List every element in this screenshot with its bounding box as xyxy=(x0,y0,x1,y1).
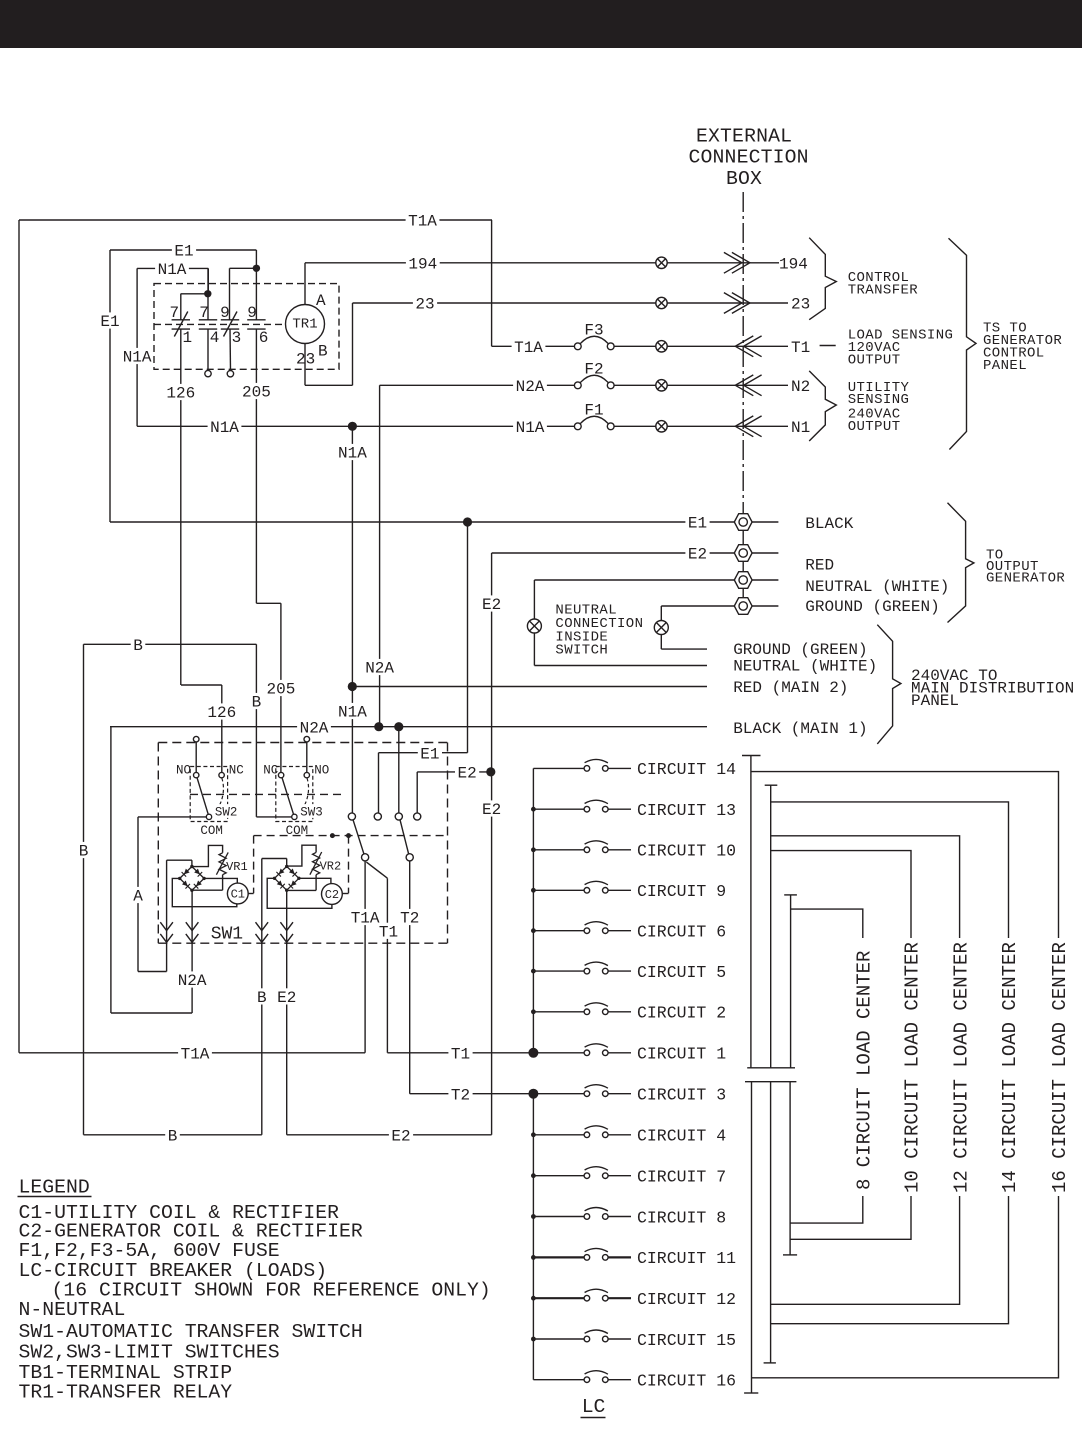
wire B left vertical xyxy=(83,644,85,1135)
wire C1 left leg top xyxy=(167,859,192,861)
contact TR1 pins 7-4 (NO) xyxy=(199,319,217,321)
breaker circuit 3 xyxy=(533,1093,584,1095)
breaker circuit 8 xyxy=(533,1216,584,1218)
wire C2 left leg top xyxy=(262,858,287,860)
coil assembly C2 dashed right edge xyxy=(348,836,350,894)
svg-text:B: B xyxy=(257,989,267,1007)
terminal SW3 upper xyxy=(304,736,310,742)
plug arrows leg B xyxy=(256,922,269,930)
fuse F1 xyxy=(574,423,581,430)
contact TR1 pins 7-1 (NC) xyxy=(172,319,190,321)
svg-text:126: 126 xyxy=(166,385,195,403)
wire to 12 circuit label xyxy=(771,836,960,938)
svg-text:CIRCUIT 5: CIRCUIT 5 xyxy=(637,963,726,982)
wire C1 left vertex to coil bottom xyxy=(172,878,237,906)
wire E2 main vertical xyxy=(491,553,493,1135)
wire A from SW2 COM xyxy=(138,816,206,818)
wire leg E2 (C2 right) xyxy=(286,891,288,1135)
wire leg A (C1 left) xyxy=(166,860,168,971)
svg-text:F1: F1 xyxy=(584,401,603,419)
svg-text:3: 3 xyxy=(232,329,242,347)
svg-text:N1A: N1A xyxy=(158,261,187,279)
wire C2 right vertex to coil top xyxy=(299,878,331,883)
load bus upper segment xyxy=(532,768,534,1052)
linkage dashed line lower / coil assembly top xyxy=(254,835,448,837)
wire N2A vertical xyxy=(379,385,381,726)
wire E1 stub row to contact xyxy=(379,752,468,754)
wire T1 bottom row xyxy=(387,1052,533,1054)
svg-text:CONNECTION: CONNECTION xyxy=(689,146,809,168)
svg-text:CIRCUIT 4: CIRCUIT 4 xyxy=(637,1127,726,1146)
resistor VR1 xyxy=(219,853,226,875)
coil C1 xyxy=(227,883,248,904)
svg-text:NEUTRAL (WHITE): NEUTRAL (WHITE) xyxy=(733,658,877,676)
svg-text:B: B xyxy=(318,343,328,361)
svg-text:CIRCUIT 13: CIRCUIT 13 xyxy=(637,801,736,820)
svg-text:PANEL: PANEL xyxy=(911,692,959,710)
svg-text:T1A: T1A xyxy=(181,1045,210,1063)
svg-text:126: 126 xyxy=(207,704,236,722)
svg-text:N1A: N1A xyxy=(338,445,367,463)
load center bar A xyxy=(750,756,752,1068)
lever pole 2 xyxy=(400,820,409,855)
node N1A to red main 2 xyxy=(348,682,357,691)
plug arrows leg A xyxy=(160,922,173,930)
wire N1A drop to relay pins xyxy=(207,268,209,293)
wire neutral drop xyxy=(533,580,535,666)
node circuit 7 bus tap xyxy=(531,1173,536,1178)
svg-text:10 CIRCUIT LOAD CENTER: 10 CIRCUIT LOAD CENTER xyxy=(902,942,924,1193)
breaker circuit 15 xyxy=(533,1338,584,1340)
svg-text:EXTERNAL: EXTERNAL xyxy=(696,125,792,147)
svg-text:E1: E1 xyxy=(688,515,707,533)
wire B bottom row xyxy=(84,1134,262,1136)
plug arrows leg E2 xyxy=(280,922,293,930)
svg-text:T1A: T1A xyxy=(351,910,380,928)
svg-text:E2: E2 xyxy=(482,801,501,819)
wire E1 tap vertical xyxy=(467,522,469,753)
breaker circuit 14 xyxy=(533,767,584,769)
contact N2A pole upper xyxy=(395,813,402,820)
terminal lamp N2 xyxy=(656,380,667,391)
svg-text:LEGEND: LEGEND xyxy=(19,1176,90,1198)
linkage dashed line upper xyxy=(190,793,344,795)
label 205 on pin 6 wire xyxy=(240,383,274,399)
pin 4 open terminal xyxy=(205,370,211,376)
svg-text:SW2,SW3-LIMIT SWITCHES: SW2,SW3-LIMIT SWITCHES xyxy=(19,1341,280,1363)
wire ground drop xyxy=(660,606,662,649)
coil C2 xyxy=(322,884,343,905)
svg-text:N1A: N1A xyxy=(123,349,152,367)
wire N2A return loop xyxy=(111,1012,192,1014)
load center bar E cap xyxy=(764,1362,776,1364)
contact N1A pole upper xyxy=(348,813,355,820)
plug arrows leg N2A xyxy=(186,922,199,930)
brace utility sensing xyxy=(809,371,836,441)
wire T1 branch xyxy=(366,862,387,878)
node circuit 9 bus tap xyxy=(531,888,536,893)
terminal stud neutral (hex) xyxy=(734,572,752,589)
wire to 10 circuit label xyxy=(771,851,911,938)
node circuit 6 bus tap xyxy=(531,928,536,933)
svg-text:C1: C1 xyxy=(231,888,245,902)
wire 12 circuit label return xyxy=(771,1196,960,1304)
svg-text:T1: T1 xyxy=(791,339,810,357)
node N1A junction at RED drop xyxy=(348,422,357,431)
wire pin9 branch xyxy=(230,267,257,269)
svg-text:194: 194 xyxy=(408,255,437,273)
wire pin7 branch xyxy=(181,293,208,295)
contact TR1 pins 9-3 (NC) xyxy=(221,319,239,321)
wire 16 circuit label return xyxy=(752,1196,1059,1378)
limit switch SW3 box (dashed) xyxy=(276,767,313,822)
wire T1A bottom row xyxy=(19,1052,365,1054)
terminal stud ground (hex) xyxy=(734,598,752,615)
wire neutral generator row xyxy=(534,579,734,581)
svg-text:C2: C2 xyxy=(325,888,339,902)
svg-text:B: B xyxy=(168,1127,178,1145)
wire to 8 circuit label xyxy=(791,909,863,938)
wire E2 stub row to contact xyxy=(417,771,491,773)
svg-text:NEUTRAL (WHITE): NEUTRAL (WHITE) xyxy=(805,578,949,596)
lamp ground connection xyxy=(654,621,668,635)
breaker circuit 4 xyxy=(533,1134,584,1136)
svg-text:T1A: T1A xyxy=(408,213,437,231)
wire VR1 bottom to bridge xyxy=(222,875,224,891)
wire 194 row xyxy=(305,262,656,264)
svg-text:7: 7 xyxy=(199,304,209,322)
svg-text:GENERATOR: GENERATOR xyxy=(986,571,1065,587)
svg-text:TR1: TR1 xyxy=(292,316,317,332)
svg-text:CIRCUIT 8: CIRCUIT 8 xyxy=(637,1208,726,1227)
terminal stud E2 (hex) xyxy=(734,545,752,562)
svg-text:E2: E2 xyxy=(688,546,707,564)
svg-text:N1A: N1A xyxy=(210,419,239,437)
wire 14 circuit label return xyxy=(771,1196,1009,1324)
breaker circuit 12 xyxy=(533,1297,584,1299)
load bus lower segment xyxy=(532,1094,534,1380)
wire T2 bottom row xyxy=(410,1093,534,1095)
svg-text:CIRCUIT 7: CIRCUIT 7 xyxy=(637,1168,726,1187)
connector arrow N1 (in) xyxy=(735,416,753,437)
svg-text:4: 4 xyxy=(210,329,220,347)
relay TR1 enclosure (dashed) xyxy=(154,284,339,370)
node circuit 4 bus tap xyxy=(531,1132,536,1137)
breaker circuit 6 xyxy=(533,930,584,932)
node circuit 13 bus tap xyxy=(531,807,536,812)
contact E1 pole upper xyxy=(374,813,381,820)
svg-text:E1: E1 xyxy=(420,745,439,763)
svg-text:16 CIRCUIT LOAD CENTER: 16 CIRCUIT LOAD CENTER xyxy=(1049,942,1071,1193)
svg-text:23: 23 xyxy=(296,351,315,369)
svg-text:SW1-AUTOMATIC TRANSFER SWITCH: SW1-AUTOMATIC TRANSFER SWITCH xyxy=(19,1321,363,1343)
node T1 to load bus xyxy=(528,1048,538,1058)
relay TR1 terminal A lead xyxy=(304,263,306,305)
breaker circuit 9 xyxy=(533,889,584,891)
svg-text:CIRCUIT 3: CIRCUIT 3 xyxy=(637,1086,726,1105)
load center bar F xyxy=(789,1082,791,1255)
terminal lamp T1 xyxy=(656,341,667,352)
wire to 16 circuit label xyxy=(751,772,1059,938)
wire N1A top row xyxy=(137,267,208,269)
wire hex interconnects xyxy=(742,531,744,545)
wire C1 staircase to VR1 xyxy=(192,845,223,866)
svg-text:CIRCUIT 6: CIRCUIT 6 xyxy=(637,923,726,942)
fuse F3 xyxy=(574,343,581,350)
wire T2 from contact xyxy=(409,861,411,1094)
svg-text:PANEL: PANEL xyxy=(983,358,1027,374)
wire E1 left vertical to generator row xyxy=(109,250,111,522)
wire E2 generator row xyxy=(492,552,734,554)
wire left vertical T1A xyxy=(18,220,20,1053)
svg-text:N1: N1 xyxy=(791,419,810,437)
node circuit 12 bus tap xyxy=(531,1296,536,1301)
svg-text:194: 194 xyxy=(779,255,808,273)
svg-text:N2: N2 xyxy=(791,378,810,396)
svg-text:9: 9 xyxy=(247,304,257,322)
load center bar F cap xyxy=(783,1254,797,1256)
svg-text:F1,F2,F3-5A, 600V FUSE: F1,F2,F3-5A, 600V FUSE xyxy=(19,1240,280,1262)
connector arrow T1 (in) xyxy=(735,336,753,357)
breaker circuit 7 xyxy=(533,1175,584,1177)
node linkage dot 1 xyxy=(330,833,335,838)
svg-text:GROUND (GREEN): GROUND (GREEN) xyxy=(805,598,939,616)
svg-text:SW1: SW1 xyxy=(211,925,243,945)
wire red main 2 row xyxy=(352,686,707,688)
limit switch SW2 box (dashed) xyxy=(190,767,227,822)
load center bar B xyxy=(770,785,772,1068)
svg-text:N2A: N2A xyxy=(178,972,207,990)
wire 23 row xyxy=(353,302,656,304)
node circuit 5 bus tap xyxy=(531,969,536,974)
wire 23 link from TR1 B xyxy=(305,384,353,386)
breaker circuit 10 xyxy=(533,849,584,851)
svg-text:CIRCUIT 2: CIRCUIT 2 xyxy=(637,1004,726,1023)
svg-text:N2A: N2A xyxy=(365,660,394,678)
svg-text:CIRCUIT 15: CIRCUIT 15 xyxy=(637,1331,736,1350)
terminal SW2 upper xyxy=(193,736,199,742)
contact TR1 pins 9-6 (NO) xyxy=(247,319,265,321)
svg-text:BLACK: BLACK xyxy=(805,515,853,533)
resistor VR2 xyxy=(313,852,320,874)
wire E1 top row xyxy=(110,249,256,251)
svg-text:COM: COM xyxy=(200,824,223,838)
svg-text:8 CIRCUIT LOAD CENTER: 8 CIRCUIT LOAD CENTER xyxy=(853,951,875,1190)
connector arrow 194 (out) xyxy=(724,252,742,273)
load center bar D xyxy=(751,1082,753,1393)
rectifier bridge of C1 xyxy=(180,867,192,879)
node T2 to load bus xyxy=(528,1089,538,1099)
node E1 tap for transfer contact xyxy=(463,517,472,526)
contact T1A lower xyxy=(362,854,369,861)
svg-text:NC: NC xyxy=(229,764,244,778)
svg-text:NC: NC xyxy=(263,764,278,778)
wire leg N2A (C1 right) xyxy=(191,890,193,1013)
fuse F2 xyxy=(574,382,581,389)
node linkage dot 2 xyxy=(346,833,351,838)
wire 205 jog xyxy=(256,602,281,604)
svg-text:CIRCUIT 14: CIRCUIT 14 xyxy=(637,760,736,779)
wire leg B (C2 left) xyxy=(261,859,263,1135)
wire T1A from contact xyxy=(364,861,366,1053)
svg-text:CIRCUIT 10: CIRCUIT 10 xyxy=(637,842,736,861)
svg-text:B: B xyxy=(252,694,262,712)
lever pole 1 xyxy=(353,820,364,855)
svg-text:GROUND (GREEN): GROUND (GREEN) xyxy=(733,641,867,659)
wire ground generator row xyxy=(661,605,734,607)
svg-text:CIRCUIT 16: CIRCUIT 16 xyxy=(637,1372,736,1391)
svg-text:T2: T2 xyxy=(451,1086,470,1104)
wire 205 to SW3 NC xyxy=(280,603,282,772)
node circuit 10 bus tap xyxy=(531,847,536,852)
svg-text:SW2: SW2 xyxy=(215,805,238,819)
connector arrow N2 (in) xyxy=(735,375,753,396)
svg-text:T1A: T1A xyxy=(514,339,543,357)
svg-text:CIRCUIT 11: CIRCUIT 11 xyxy=(637,1249,736,1268)
wire to 14 circuit label xyxy=(771,802,1009,938)
svg-text:N1A: N1A xyxy=(338,704,367,722)
svg-text:B: B xyxy=(79,843,89,861)
svg-text:T1: T1 xyxy=(451,1045,470,1063)
node circuit 15 bus tap xyxy=(531,1337,536,1342)
node circuit 8 bus tap xyxy=(531,1214,536,1219)
terminal lamp N1 xyxy=(656,421,667,432)
svg-text:T1: T1 xyxy=(379,923,398,941)
svg-text:E2: E2 xyxy=(482,596,501,614)
svg-text:N2A: N2A xyxy=(300,719,329,737)
svg-text:205: 205 xyxy=(242,384,271,402)
wire 126 to SW2 NC xyxy=(221,685,223,772)
svg-text:CIRCUIT 1: CIRCUIT 1 xyxy=(637,1045,726,1064)
breaker circuit 5 xyxy=(533,970,584,972)
wire N2A fuse row xyxy=(380,384,575,386)
node N1A/pin7 junction xyxy=(204,290,211,297)
svg-text:23: 23 xyxy=(415,296,434,314)
wire T1A fuse row xyxy=(492,345,575,347)
node E2 tap xyxy=(486,767,495,776)
load center bar C xyxy=(790,895,792,1068)
svg-text:NO: NO xyxy=(314,764,329,778)
breaker circuit 2 xyxy=(533,1011,584,1013)
load center bar B cap xyxy=(765,784,778,786)
node circuit 11 bus tap xyxy=(531,1255,536,1260)
lamp neutral connection xyxy=(527,619,541,633)
svg-text:9: 9 xyxy=(220,304,230,322)
wire C1 right vertex to coil top xyxy=(204,878,237,883)
wire C2 staircase to VR2 xyxy=(287,845,316,866)
svg-text:12 CIRCUIT LOAD CENTER: 12 CIRCUIT LOAD CENTER xyxy=(950,942,972,1193)
wire ground green row xyxy=(661,648,707,650)
wire T1A top row xyxy=(19,219,492,221)
svg-text:E2: E2 xyxy=(391,1127,410,1145)
svg-text:N1A: N1A xyxy=(516,419,545,437)
node N2A to black main 1 xyxy=(374,722,383,731)
switch SW1 enclosure (dashed) xyxy=(158,742,447,744)
svg-text:23: 23 xyxy=(791,296,810,314)
wire B row xyxy=(84,643,257,645)
load center bar A cap xyxy=(742,755,761,757)
load center group1 bottom bar xyxy=(747,1067,795,1069)
svg-text:TRANSFER: TRANSFER xyxy=(848,283,919,299)
wire N1A vertical to transfer contact xyxy=(351,426,353,813)
external connection box boundary line (dash-dot) xyxy=(742,192,744,514)
svg-text:CIRCUIT 12: CIRCUIT 12 xyxy=(637,1290,736,1309)
terminal lamp 23 xyxy=(656,297,667,308)
svg-text:A: A xyxy=(133,888,143,906)
svg-text:SWITCH: SWITCH xyxy=(555,643,608,659)
breaker circuit 11 xyxy=(533,1256,584,1258)
pin 3 open terminal xyxy=(227,371,233,377)
relay TR1 actuation line (dashed) xyxy=(154,323,286,325)
top banner bar xyxy=(0,0,1082,48)
svg-text:SENSING: SENSING xyxy=(848,392,910,408)
svg-text:CIRCUIT 9: CIRCUIT 9 xyxy=(637,882,726,901)
load center group2 top bar xyxy=(745,1081,796,1083)
svg-text:F3: F3 xyxy=(584,321,603,339)
svg-text:1: 1 xyxy=(183,329,193,347)
svg-text:205: 205 xyxy=(267,681,296,699)
wire neutral white row xyxy=(534,665,707,667)
svg-text:14 CIRCUIT LOAD CENTER: 14 CIRCUIT LOAD CENTER xyxy=(999,942,1021,1193)
wire black main1 to contact vertical xyxy=(398,727,400,813)
svg-text:BOX: BOX xyxy=(726,168,762,190)
svg-text:T2: T2 xyxy=(400,910,419,928)
coil assembly C2 dashed left edge xyxy=(253,836,255,894)
wire VR2 bottom to bridge xyxy=(315,875,317,891)
svg-text:LC-CIRCUIT BREAKER (LOADS): LC-CIRCUIT BREAKER (LOADS) xyxy=(19,1260,328,1282)
load center bar D cap xyxy=(744,1392,758,1394)
contact T2 lower xyxy=(406,854,413,861)
wire C1 stub to assembly edge xyxy=(248,893,253,895)
wire N1A fuse row xyxy=(137,425,574,427)
rectifier bridge of C2 xyxy=(275,866,287,878)
svg-text:VR2: VR2 xyxy=(320,859,342,873)
brace to output generator xyxy=(948,503,974,623)
svg-text:6: 6 xyxy=(259,329,269,347)
svg-text:B: B xyxy=(133,637,143,655)
wire E1 drop to relay pins xyxy=(255,250,257,268)
node black main1 to contact xyxy=(394,722,403,731)
label 126 on pin 1 wire xyxy=(164,384,198,400)
wire 8 circuit label return xyxy=(790,1196,863,1223)
svg-text:BLACK (MAIN 1): BLACK (MAIN 1) xyxy=(733,720,867,738)
connector arrow 23 (out) xyxy=(724,293,742,314)
brace 240vac to main distribution panel xyxy=(877,625,901,744)
svg-text:LC: LC xyxy=(582,1396,606,1418)
svg-text:N-NEUTRAL: N-NEUTRAL xyxy=(19,1299,126,1321)
brace control transfer xyxy=(809,238,836,320)
wire C2 left vertex to coil bottom xyxy=(267,878,332,908)
breaker circuit 13 xyxy=(533,808,584,810)
svg-text:E2: E2 xyxy=(277,989,296,1007)
wire B drop to SW3 COM xyxy=(255,644,257,817)
svg-text:OUTPUT: OUTPUT xyxy=(848,419,901,435)
relay coil TR1 circle xyxy=(286,305,325,344)
svg-text:SW3: SW3 xyxy=(300,805,323,819)
brace TS to generator control panel xyxy=(949,238,977,449)
load center bar E xyxy=(770,1082,772,1363)
svg-text:N2A: N2A xyxy=(516,378,545,396)
wire T1A drop to fuse F3 row xyxy=(491,220,493,346)
svg-text:TR1-TRANSFER RELAY: TR1-TRANSFER RELAY xyxy=(19,1381,233,1403)
wire 10 circuit label return xyxy=(790,1196,911,1239)
breaker circuit 16 xyxy=(533,1379,584,1381)
wire C2 stub to assembly edge xyxy=(342,893,348,895)
wire N1A left vertical xyxy=(136,268,138,426)
contact E2 pole upper xyxy=(414,813,421,820)
svg-text:E1: E1 xyxy=(100,313,119,331)
wire 126 jog xyxy=(181,684,222,686)
